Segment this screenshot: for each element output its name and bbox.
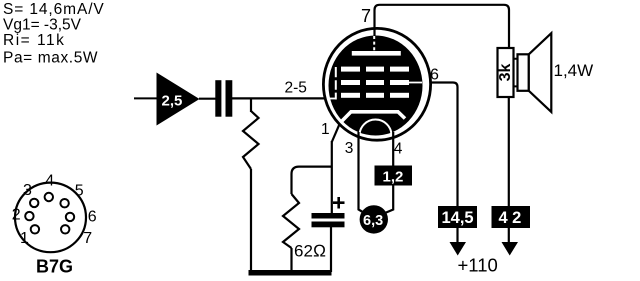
wire cap to rail (330, 227, 332, 272)
box 14,5 (438, 206, 477, 228)
svg-text:42: 42 (499, 209, 526, 227)
socket pin 1 (31, 225, 39, 233)
svg-text:Ri= 11k: Ri= 11k (3, 32, 65, 49)
wire pin6 from tube (432, 83, 458, 207)
svg-text:2,5: 2,5 (162, 93, 183, 110)
svg-text:+110: +110 (458, 255, 498, 276)
wire input left (134, 97, 157, 99)
filament arc (360, 120, 392, 136)
anode bar (352, 51, 401, 56)
grid row 1 (341, 67, 360, 72)
anode dashed lead (373, 36, 375, 51)
wire pin3 down (359, 132, 364, 213)
wire triangle to capacitor (199, 98, 216, 100)
wire pin1 diagonal from tube (332, 120, 342, 143)
svg-text:7: 7 (83, 230, 92, 247)
wire anode pin7 to top (375, 5, 510, 48)
socket pin 5 (60, 199, 68, 207)
svg-text:Vg1= -3,5V: Vg1= -3,5V (3, 16, 82, 33)
grid row 3 (341, 93, 360, 98)
svg-text:1: 1 (321, 121, 330, 138)
resistor grid leak zigzag (243, 111, 259, 169)
resistor 3k box (498, 48, 514, 97)
box 1,2 (375, 166, 413, 186)
arrow 1 head (450, 242, 467, 256)
svg-text:4: 4 (394, 141, 403, 158)
input level triangle 2,5 (157, 73, 200, 126)
grid left rail white (335, 67, 337, 100)
svg-text:1,2: 1,2 (383, 169, 404, 186)
box 42 (492, 206, 531, 228)
svg-text:2-5: 2-5 (285, 80, 307, 97)
wire arrow 1 shaft (456, 228, 458, 245)
wire 62ohm to rail (290, 248, 292, 272)
svg-text:3: 3 (23, 182, 32, 199)
speaker (518, 54, 529, 91)
circle 6,3 heater (360, 205, 388, 233)
socket pin 3 (30, 199, 38, 207)
B7G socket circle (15, 183, 86, 253)
svg-text:4: 4 (45, 173, 54, 190)
resistor 62 ohm zigzag (283, 194, 299, 248)
wire drop to grid resistor (250, 98, 252, 112)
grid entry white stub (330, 98, 337, 100)
tube envelope (323, 28, 430, 140)
socket pin 7 (61, 225, 69, 233)
svg-text:3: 3 (345, 140, 354, 157)
speaker stubs (514, 59, 519, 87)
wire pin4 down (385, 132, 393, 213)
svg-text:14,5: 14,5 (442, 209, 474, 227)
grid row 2 (341, 80, 360, 85)
socket pin 4 (45, 193, 53, 201)
svg-text:6: 6 (88, 209, 97, 226)
svg-text:3k: 3k (497, 64, 514, 82)
screen lead white to pin6 (405, 82, 422, 84)
svg-text:7: 7 (361, 6, 371, 26)
svg-text:62Ω: 62Ω (294, 241, 326, 260)
svg-text:Pa= max.5W: Pa= max.5W (3, 50, 98, 67)
cathode chevron white (341, 112, 405, 122)
capacitor electrolytic bypass (312, 213, 345, 219)
arrow 2 head (502, 242, 519, 256)
socket pin 6 (66, 213, 74, 221)
plus sign (333, 197, 345, 209)
tube electrode disc (329, 36, 423, 136)
wire junction cathode network (292, 167, 332, 194)
ground rail (249, 270, 332, 276)
svg-text:2: 2 (12, 207, 21, 224)
wire capacitor to tube grid (232, 97, 331, 99)
wire 3k to 42 box (508, 97, 510, 242)
wire cathode pin1 vertical (331, 141, 333, 213)
svg-text:S= 14,6mA/V: S= 14,6mA/V (3, 1, 105, 18)
svg-text:5: 5 (75, 183, 84, 200)
svg-text:6: 6 (430, 67, 439, 84)
svg-text:6,3: 6,3 (363, 213, 383, 229)
svg-text:1,4W: 1,4W (554, 61, 594, 80)
svg-text:1: 1 (20, 230, 29, 247)
svg-text:B7G: B7G (36, 257, 73, 277)
capacitor C1 coupling (215, 80, 221, 117)
socket pin 2 (25, 212, 33, 220)
wire grid resistor to rail (250, 169, 252, 272)
